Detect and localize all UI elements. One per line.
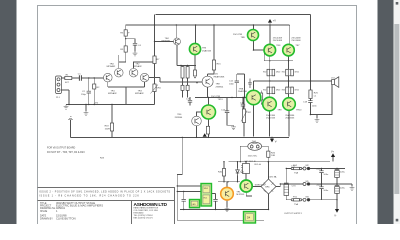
wire input ground rail — [66, 104, 155, 106]
schematic small labels — [56, 32, 346, 215]
svg-text:R32: R32 — [263, 89, 266, 91]
resistor R15 — [212, 60, 215, 70]
svg-text:100n: 100n — [323, 190, 329, 192]
svg-text:2SA1986: 2SA1986 — [266, 114, 276, 117]
resistor R7 — [153, 56, 156, 64]
transistor TR6 — [192, 116, 202, 126]
note for v8 board — [47, 147, 85, 155]
wire C15 legs — [189, 97, 191, 106]
svg-text:R31: R31 — [282, 71, 285, 73]
transistor psu highlighted green — [240, 180, 252, 192]
svg-text:10R: 10R — [271, 155, 275, 157]
terminal M3 — [303, 167, 310, 170]
svg-text:RL1-A: RL1-A — [255, 163, 262, 166]
svg-text:T5A: T5A — [294, 203, 299, 206]
svg-text:2SA1943: 2SA1943 — [285, 116, 295, 119]
transistor TR7 highlighted — [283, 44, 295, 56]
transistor F highlighted — [263, 97, 277, 111]
svg-text:HEATSINK: HEATSINK — [214, 76, 225, 79]
wire V plus stub — [332, 157, 334, 162]
schematic frame — [38, 6, 357, 225]
wire output rail 97 — [195, 97, 246, 99]
wire C14 legs — [227, 98, 234, 126]
wire supply cap legs — [322, 169, 353, 200]
wire output node rail — [254, 81, 311, 90]
svg-text:2N3904: 2N3904 — [216, 86, 224, 88]
svg-text:DO NOT FIT - TR3, TR7, R4 & R2: DO NOT FIT - TR3, TR7, R4 & R23 — [47, 151, 85, 154]
svg-text:2SC4793: 2SC4793 — [233, 34, 243, 36]
wire cap C7 column — [285, 169, 287, 200]
title block outer box — [38, 188, 175, 225]
wire mid rail 65 — [177, 65, 196, 67]
resistor R18 — [110, 123, 113, 131]
wire R7 VR1 column — [154, 64, 156, 105]
fuse FS2 — [291, 167, 302, 169]
ground psu — [225, 207, 230, 211]
bridge rectifier BR1 — [261, 179, 276, 194]
wire driver resistor legs — [183, 66, 196, 71]
svg-text:OUTPUT SUPPLY: OUTPUT SUPPLY — [284, 213, 303, 215]
wire bridge right to cap — [276, 184, 307, 187]
transistor TR2 — [129, 68, 138, 77]
viewer right sidebar — [378, 0, 394, 224]
svg-text:2SA1943: 2SA1943 — [266, 116, 276, 119]
svg-text:100n: 100n — [225, 112, 231, 114]
wire TR5 down — [194, 55, 196, 66]
wire TR7 collector drop — [289, 25, 291, 44]
scrollbar down arrow — [396, 219, 399, 222]
ground rail end — [64, 105, 69, 109]
scrollbar track — [394, 0, 400, 224]
wire TR7 emitter chain — [288, 56, 291, 137]
wire supply row bottom — [309, 199, 337, 201]
resistor R11 — [186, 67, 189, 79]
svg-text:2N3904: 2N3904 — [175, 117, 183, 119]
svg-text:150C N/C: 150C N/C — [248, 155, 258, 157]
wire TR4 collector drop — [175, 25, 177, 38]
svg-text:MPSA92: MPSA92 — [162, 40, 171, 43]
ground C14 — [231, 125, 236, 129]
terminal M1 — [303, 183, 310, 186]
capacitor C18 — [308, 101, 312, 103]
connector PL1 — [56, 76, 62, 94]
resistor R13 — [186, 85, 189, 90]
wire ground stub input — [85, 105, 87, 112]
svg-text:ISSUE: ISSUE — [40, 210, 48, 213]
svg-text:150p: 150p — [81, 94, 87, 96]
resistor R24 — [267, 151, 270, 157]
preset PR2 — [241, 109, 247, 123]
wire psu ground stub — [226, 200, 228, 207]
svg-text:+V: +V — [273, 20, 276, 23]
wire C16 legs — [242, 98, 244, 112]
capacitor C1 — [79, 75, 81, 81]
transistor TR1 — [104, 73, 113, 82]
viewer left sidebar — [0, 0, 17, 224]
wire jack sleeve down — [61, 90, 69, 105]
ground input — [84, 111, 89, 115]
svg-text:2SC4468: 2SC4468 — [273, 40, 283, 42]
svg-text:MPSA92: MPSA92 — [107, 65, 116, 68]
wire psu top rail — [229, 161, 331, 163]
svg-text:0R22: 0R22 — [295, 89, 299, 91]
wire diff collectors up — [119, 55, 154, 68]
wire C23 legs — [215, 194, 217, 210]
svg-text:TR11: TR11 — [218, 99, 224, 101]
wire C22 legs — [183, 192, 185, 210]
transistor psu highlighted orange — [221, 187, 234, 200]
svg-text:100n: 100n — [229, 83, 235, 85]
svg-text:MJE15030: MJE15030 — [255, 185, 266, 187]
transistor driver E highlighted — [246, 90, 260, 104]
svg-text:T5A: T5A — [294, 172, 299, 175]
relay SW1 highlighted box — [201, 184, 212, 207]
svg-text:2SC4468: 2SC4468 — [291, 40, 301, 42]
resistor R12 — [181, 85, 184, 90]
wire R2 leg — [93, 78, 95, 105]
wire TH1 right — [262, 146, 269, 151]
capacitor C7 — [284, 183, 289, 195]
wire TH1 feed — [240, 146, 248, 162]
wire node to speaker — [311, 80, 332, 82]
wire speaker return — [310, 85, 332, 115]
speaker LS1 — [332, 77, 339, 88]
wire preset column — [243, 98, 245, 137]
wire R18 column — [111, 105, 113, 138]
wire TRD emitter down — [254, 41, 265, 51]
svg-text:100n: 100n — [312, 105, 318, 107]
wire regulator links — [212, 162, 253, 196]
resistor R33 pair — [286, 87, 294, 94]
supply arrow V minus mid — [270, 139, 277, 144]
wire feedback left leg — [70, 120, 72, 138]
ground zobel — [315, 118, 320, 122]
svg-text:FAX (01376) 571071: FAX (01376) 571071 — [134, 217, 154, 220]
ground C3 — [133, 52, 138, 56]
transistor G highlighted — [283, 98, 296, 111]
title table texts — [40, 201, 103, 221]
led highlighted box — [190, 200, 200, 208]
transistor TR8 highlighted — [264, 44, 276, 56]
svg-text:0R22: 0R22 — [295, 71, 299, 73]
wire output feed drop to node — [310, 15, 312, 82]
svg-text:MPSA92: MPSA92 — [108, 92, 117, 95]
svg-text:ISSUE 1 - R8 CHANGED TO 18K, R: ISSUE 1 - R8 CHANGED TO 18K, R24 CHANGED… — [39, 195, 139, 198]
wire diff to TR9 base — [149, 78, 202, 98]
wire C11 legs — [237, 74, 245, 98]
resistor R1 — [65, 76, 72, 79]
capacitor C11 — [235, 81, 239, 83]
svg-text:0R22: 0R22 — [276, 89, 280, 91]
resistor R2 — [93, 84, 96, 89]
svg-text:MPSA92: MPSA92 — [133, 65, 142, 68]
resistor R5 — [124, 46, 127, 52]
transistor TR9 — [202, 76, 213, 87]
transistor TR3 — [140, 73, 149, 82]
svg-text:TRD: TRD — [241, 37, 246, 39]
connector SK1 — [241, 164, 250, 174]
svg-text:0R22: 0R22 — [276, 71, 280, 73]
ground feedback inverted — [68, 117, 73, 120]
svg-text:LED: LED — [192, 204, 196, 206]
resistor R3 — [124, 30, 127, 36]
terminal M2 — [303, 198, 310, 201]
supply arrow V minus psu — [334, 209, 339, 217]
capacitor C3 — [133, 43, 137, 45]
wire V minus stub — [271, 137, 273, 138]
wire TR5 collector drop — [195, 25, 197, 43]
svg-text:220u: 220u — [340, 187, 346, 189]
capacitor C22 — [182, 199, 186, 201]
wire supply row mid — [309, 183, 352, 185]
wire fuse FS1 row — [286, 199, 306, 201]
svg-text:R33: R33 — [282, 89, 285, 91]
capacitor C73 — [335, 185, 340, 193]
capacitor C75 — [335, 169, 340, 177]
wire input to TR1 base — [61, 77, 104, 79]
wire driver E down — [253, 105, 255, 137]
wire bridge bottom — [268, 162, 270, 210]
svg-text:FOR V8 OUTPUT BOARD: FOR V8 OUTPUT BOARD — [47, 147, 76, 150]
resistor R10 — [181, 67, 184, 79]
svg-text:CLIVE BUTTON: CLIVE BUTTON — [56, 217, 76, 221]
capacitor C76 — [319, 171, 323, 173]
svg-text:R30: R30 — [263, 71, 266, 73]
wire R24 legs — [267, 157, 269, 161]
wire R34 link — [261, 91, 263, 105]
svg-text:V-: V- — [275, 141, 277, 144]
diode D4 highlighted box — [244, 212, 256, 224]
wire TR4 down — [176, 45, 178, 66]
wire fuse FS2 row — [286, 168, 306, 170]
wire TRD collector drop — [252, 25, 254, 30]
svg-text:DRAWN BY: DRAWN BY — [40, 218, 53, 221]
resistor R40 — [222, 169, 225, 177]
svg-text:150R: 150R — [105, 128, 111, 130]
wire TR8 emitter chain — [269, 56, 271, 136]
supply arrow +V — [268, 19, 276, 25]
capacitor C2 — [87, 91, 91, 93]
wire TR11 chain — [208, 98, 210, 138]
transistor TR11 highlighted — [202, 105, 216, 119]
wire C2 leg — [88, 78, 90, 105]
wire feedback rail — [71, 136, 289, 138]
wire diff pair emitters — [108, 82, 145, 105]
capacitor C14 — [225, 111, 229, 113]
wire bridge left — [252, 186, 261, 188]
resistor R14 — [194, 70, 197, 76]
transistor TRD highlighted — [248, 30, 259, 41]
scrollbar thumb — [394, 24, 399, 194]
wire TR9 base emitter — [207, 87, 209, 97]
svg-text:2SA1943: 2SA1943 — [202, 49, 212, 52]
resistor R32 pair — [267, 87, 275, 94]
capacitor C15 — [188, 100, 192, 102]
supply arrow tap — [203, 133, 210, 137]
svg-text:2SA1986: 2SA1986 — [238, 90, 248, 93]
wire rail A left drop through R7 column — [154, 15, 156, 57]
svg-text:100n: 100n — [323, 174, 329, 176]
svg-text:2SC4793: 2SC4793 — [211, 96, 221, 98]
wire psu bottom rail — [177, 219, 264, 221]
wire psu aux rail — [177, 186, 201, 192]
svg-text:TR10: TR10 — [296, 109, 302, 111]
wire bias column drop — [213, 25, 215, 60]
wire psu mid rail — [180, 209, 269, 211]
svg-text:MPSA92: MPSA92 — [135, 92, 144, 95]
capacitor C16 — [241, 104, 245, 106]
wire rail B — [126, 24, 290, 26]
resistor R30 pair — [267, 69, 275, 76]
wire V minus supply stub — [336, 200, 338, 209]
resistor R25 zobel — [309, 90, 312, 99]
fuse FS1 — [291, 199, 302, 201]
svg-text:V-: V- — [334, 214, 336, 217]
capacitor C12 — [248, 79, 251, 89]
ground supply — [350, 186, 355, 190]
resistor R31 pair — [286, 69, 294, 76]
wire emitter tie rail — [264, 52, 293, 69]
wire TR4 base link — [155, 41, 174, 43]
diode D11 — [236, 168, 240, 176]
svg-text:2SA1986: 2SA1986 — [285, 114, 295, 117]
wire rail A top — [156, 14, 311, 16]
svg-text:SK1 RL1-B: SK1 RL1-B — [245, 161, 256, 163]
transistor TR4 vas — [174, 38, 181, 45]
resistor R34 — [260, 93, 263, 100]
wire supply row top — [309, 168, 345, 170]
svg-text:MJ2955: MJ2955 — [236, 194, 245, 196]
wire psu left leg — [177, 137, 182, 220]
wire C3 tap — [126, 39, 135, 52]
capacitor C74 — [319, 187, 323, 189]
capacitor C23 — [213, 199, 217, 201]
transistor TR4 input — [115, 68, 124, 77]
svg-text:400V 8A: 400V 8A — [268, 175, 277, 178]
transistor TR5 highlighted — [189, 43, 200, 54]
svg-text:220u: 220u — [340, 171, 346, 173]
thermal trip TH1 — [248, 142, 262, 150]
wire bias resistor leg — [208, 70, 214, 76]
supply arrow V plus psu — [331, 151, 335, 157]
wire TR6 legs — [197, 112, 202, 137]
resistor R22 — [206, 126, 209, 134]
wire TR8 collector drop — [269, 25, 271, 45]
wire R3 R5 column — [119, 25, 126, 68]
scrollbar up arrow — [396, 2, 399, 5]
wire zobel chain — [311, 81, 318, 118]
preset VR1 — [151, 84, 159, 94]
svg-text:ISSUE 2 - POSITION OF SW1 CHAN: ISSUE 2 - POSITION OF SW1 CHANGED, LED A… — [39, 190, 170, 193]
